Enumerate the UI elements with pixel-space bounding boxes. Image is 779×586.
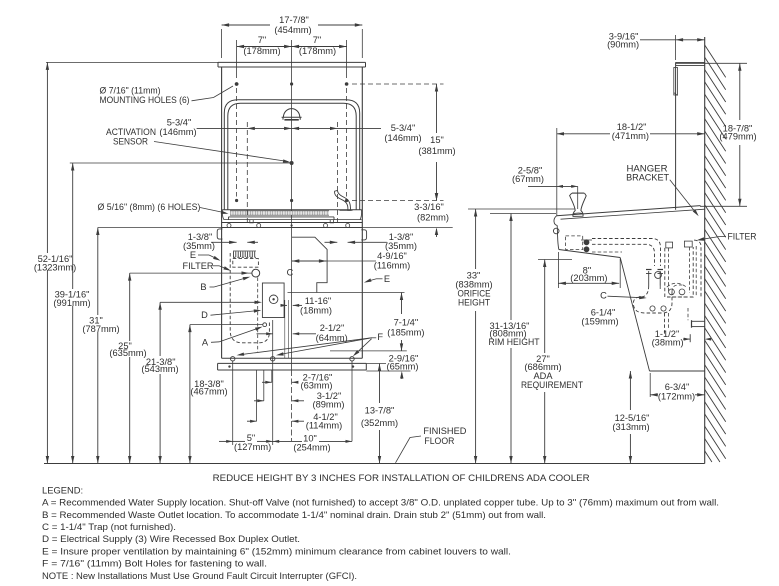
svg-text:7-1/4": 7-1/4" [394,318,419,328]
front view panel bottom edge [222,357,363,359]
label E right [364,274,390,284]
svg-text:B = Recommended Waste Outlet l: B = Recommended Waste Outlet location. T… [42,510,546,520]
dim 25 vertical [109,271,251,463]
svg-text:(146mm): (146mm) [159,127,196,137]
svg-text:(178mm): (178mm) [299,46,336,56]
dim 7-1/4 vertical [330,293,425,351]
svg-text:(352mm): (352mm) [361,418,398,428]
dim 7 inch left and right hole spacing [237,35,347,78]
svg-text:F = 7/16" (11mm) Bolt Holes fo: F = 7/16" (11mm) Bolt Holes for fastenin… [42,559,267,569]
dim 8 inch (203mm) [558,252,620,288]
extension line for 7-1/4 and 11-16 [288,292,405,294]
svg-text:FINISHED: FINISHED [423,426,466,436]
dim 4-1/2 (114mm) [247,412,342,430]
svg-text:13-7/8": 13-7/8" [365,405,395,415]
bottom flange [218,363,367,370]
svg-text:E: E [190,250,196,260]
dim 17-7/8 (454mm) overall width [222,15,363,58]
legend [42,484,719,580]
dim 1-3/8 left side [183,232,258,251]
cabinet door rounded outline inner [228,103,356,210]
front view panel right edge [361,67,363,358]
drain dome at top of door [282,109,302,120]
svg-text:(116mm): (116mm) [374,261,411,271]
svg-text:FLOOR: FLOOR [424,436,454,446]
dim 2-5/8 (67mm) [512,166,578,209]
svg-text:FILTER: FILTER [728,231,757,241]
svg-text:17-7/8": 17-7/8" [279,15,309,25]
svg-text:B: B [200,282,206,292]
dim 39-1/16 vertical [53,163,90,464]
dim 12-5/16 vertical [612,371,649,464]
svg-text:(67mm): (67mm) [512,174,544,184]
svg-text:(127mm): (127mm) [234,442,271,452]
dim 27 ADA requirement [521,260,583,464]
dim 6-3/4 (172mm) [650,373,705,402]
regulator dashed near bubbler [566,236,592,252]
label A [202,327,263,348]
svg-text:A = Recommended Water Supply l: A = Recommended Water Supply location. S… [42,498,719,508]
bubbler side view [570,193,587,216]
svg-text:(479mm): (479mm) [719,132,756,142]
centerline symbol front [287,268,294,278]
left bumper [217,229,222,239]
svg-text:(178mm): (178mm) [243,46,280,56]
svg-text:(185mm): (185mm) [387,328,424,338]
dim 18-3/8 vertical [188,325,263,464]
hanger bracket panel side view [674,62,705,209]
svg-text:REDUCE HEIGHT BY 3 INCHES FOR: REDUCE HEIGHT BY 3 INCHES FOR INSTALLATI… [213,473,590,484]
svg-text:Ø 7/16" (11mm): Ø 7/16" (11mm) [100,86,161,96]
svg-text:(38mm): (38mm) [652,338,684,348]
label F with leaders to bolt holes [237,332,384,356]
svg-text:(90mm): (90mm) [607,40,639,50]
svg-text:(254mm): (254mm) [293,443,330,453]
svg-text:C: C [287,268,294,278]
svg-text:(471mm): (471mm) [612,131,649,141]
svg-text:15": 15" [430,135,444,145]
svg-text:E: E [384,274,390,284]
svg-text:(1323mm): (1323mm) [34,262,76,272]
svg-text:(146mm): (146mm) [384,133,421,143]
bubbler front view [335,190,353,210]
svg-text:(114mm): (114mm) [306,420,343,430]
dim 11-16 (18mm) [281,296,333,316]
wall hatching [705,45,726,462]
refrigerant stepped line [292,237,328,292]
dim 1-1/2 (38mm) [652,329,712,348]
label D [201,309,261,320]
svg-text:3-3/16": 3-3/16" [414,202,444,212]
basin deck band [222,210,363,223]
svg-text:MOUNTING HOLES (6): MOUNTING HOLES (6) [100,95,190,105]
svg-text:FILTER: FILTER [183,261,214,271]
dim 31-13/16 rim height [489,214,557,464]
activation sensor point [70,161,294,165]
dim 2-9/16 (65mm) right [366,353,418,379]
label FILTER left [183,261,232,271]
dim 13-7/8 vertical [361,364,398,464]
unit bottom and ADA diagonal [559,250,705,372]
svg-text:HEIGHT: HEIGHT [458,297,490,307]
drain pipe lines below basin [285,300,289,358]
svg-text:(172mm): (172mm) [658,392,695,402]
dashed basin hole lines [247,122,337,224]
right bumper [361,230,366,240]
svg-text:C = 1-1/4" Trap (not furnished: C = 1-1/4" Trap (not furnished). [42,522,176,532]
svg-text:(787mm): (787mm) [82,324,119,334]
label basin holes [98,202,229,214]
dim 5 and 10 inch bottom [219,433,352,453]
svg-text:(159mm): (159mm) [581,316,618,326]
dim 1-3/8 right side [325,232,418,251]
svg-text:7": 7" [258,35,266,45]
dim 3-9/16 (90mm) [607,31,705,60]
dim 15 inch right side [352,84,456,201]
center line [291,40,293,441]
svg-text:SENSOR: SENSOR [113,137,148,147]
svg-text:(65mm): (65mm) [386,361,418,371]
svg-text:5-3/4": 5-3/4" [391,123,416,133]
front view back panel top strip [218,62,366,67]
svg-text:REQUIREMENT: REQUIREMENT [521,380,583,390]
svg-text:LEGEND:: LEGEND: [42,484,83,495]
svg-text:D = Electrical Supply (3) Wire: D = Electrical Supply (3) Wire Recessed … [42,534,300,544]
trap dashed side view [633,285,688,313]
svg-text:(89mm): (89mm) [312,399,344,409]
water supply point A [263,323,267,327]
svg-text:Ø 5/16" (8mm) (6 HOLES): Ø 5/16" (8mm) (6 HOLES) [98,202,201,212]
svg-text:(381mm): (381mm) [418,146,455,156]
svg-text:(467mm): (467mm) [190,387,227,397]
svg-text:(63mm): (63mm) [300,381,332,391]
svg-text:A: A [202,338,209,348]
filter assembly dashed side view [655,241,694,297]
unit deck side view [553,206,704,250]
mounting holes row top [235,82,349,202]
dim 18-7/8 vertical right of wall [676,63,757,206]
dim 33 orifice height [455,209,575,464]
basin assembly bottom line [222,227,363,229]
svg-text:E = Insure proper ventilation: E = Insure proper ventilation by maintai… [42,546,511,556]
svg-text:2-1/2": 2-1/2" [320,323,345,333]
svg-text:(543mm): (543mm) [141,364,178,374]
waste outlet circle B [252,269,260,277]
label mounting holes [100,82,239,105]
front view panel left edge [221,67,223,358]
dim 6-1/4 (159mm) text [581,307,618,326]
filter cartridge dashed [233,251,259,267]
cabinet door rounded outline outer [224,100,359,210]
wall pipe dashed side view [694,240,701,297]
svg-text:(18mm): (18mm) [300,306,332,316]
floor line [44,463,705,465]
svg-text:11-16": 11-16" [305,296,331,306]
dim 4-9/16 horizontal [292,251,410,271]
drain pipe to wall dashed [665,308,705,335]
dim 31 vertical [82,228,221,464]
dim 2-7/16 (63mm) [262,373,333,391]
dim 21-3/8 vertical [141,301,262,464]
basin bolt circles row [227,224,350,228]
svg-text:(35mm): (35mm) [385,241,417,251]
vertical refs below cabinet [233,320,352,445]
dim 2-1/2 (64mm) [257,323,348,343]
svg-text:RIM HEIGHT: RIM HEIGHT [489,337,540,347]
note reduce height [213,473,590,484]
svg-text:ACTIVATION: ACTIVATION [106,127,156,137]
dim 18-1/2 horizontal [557,122,705,216]
svg-text:F: F [377,332,383,342]
svg-text:NOTE : New Installations Must: NOTE : New Installations Must Use Ground… [42,571,357,581]
dim 3-1/2 (89mm) [254,391,345,409]
label C side view [600,291,647,301]
svg-text:(635mm): (635mm) [109,348,146,358]
electrical outlet box D [262,283,284,318]
dim 3-3/16 right side [362,193,452,237]
label activation sensor and dim 5-3/4 [106,118,422,163]
bottom bolt holes [231,357,355,361]
tank dashed outline [230,253,269,352]
svg-text:D: D [201,310,208,320]
label B [200,277,250,293]
svg-text:(454mm): (454mm) [274,25,311,35]
svg-text:(991mm): (991mm) [53,298,90,308]
label FILTER right [697,231,757,241]
svg-text:(82mm): (82mm) [417,212,449,222]
svg-text:(35mm): (35mm) [183,241,215,251]
svg-text:(203mm): (203mm) [570,273,607,283]
svg-text:C: C [600,291,607,301]
label HANGER BRACKET [626,163,699,216]
svg-text:4-9/16": 4-9/16" [377,251,407,261]
svg-text:7": 7" [313,35,321,45]
dim 52-1/16 vertical [34,62,218,463]
label E left filter [190,250,221,261]
svg-text:BRACKET: BRACKET [626,172,669,182]
svg-text:(313mm): (313mm) [612,422,649,432]
dashed supply piping side view [592,239,661,267]
label FINISHED FLOOR [396,426,467,463]
supply stubs with caps [646,270,663,286]
wall section line [704,37,706,464]
